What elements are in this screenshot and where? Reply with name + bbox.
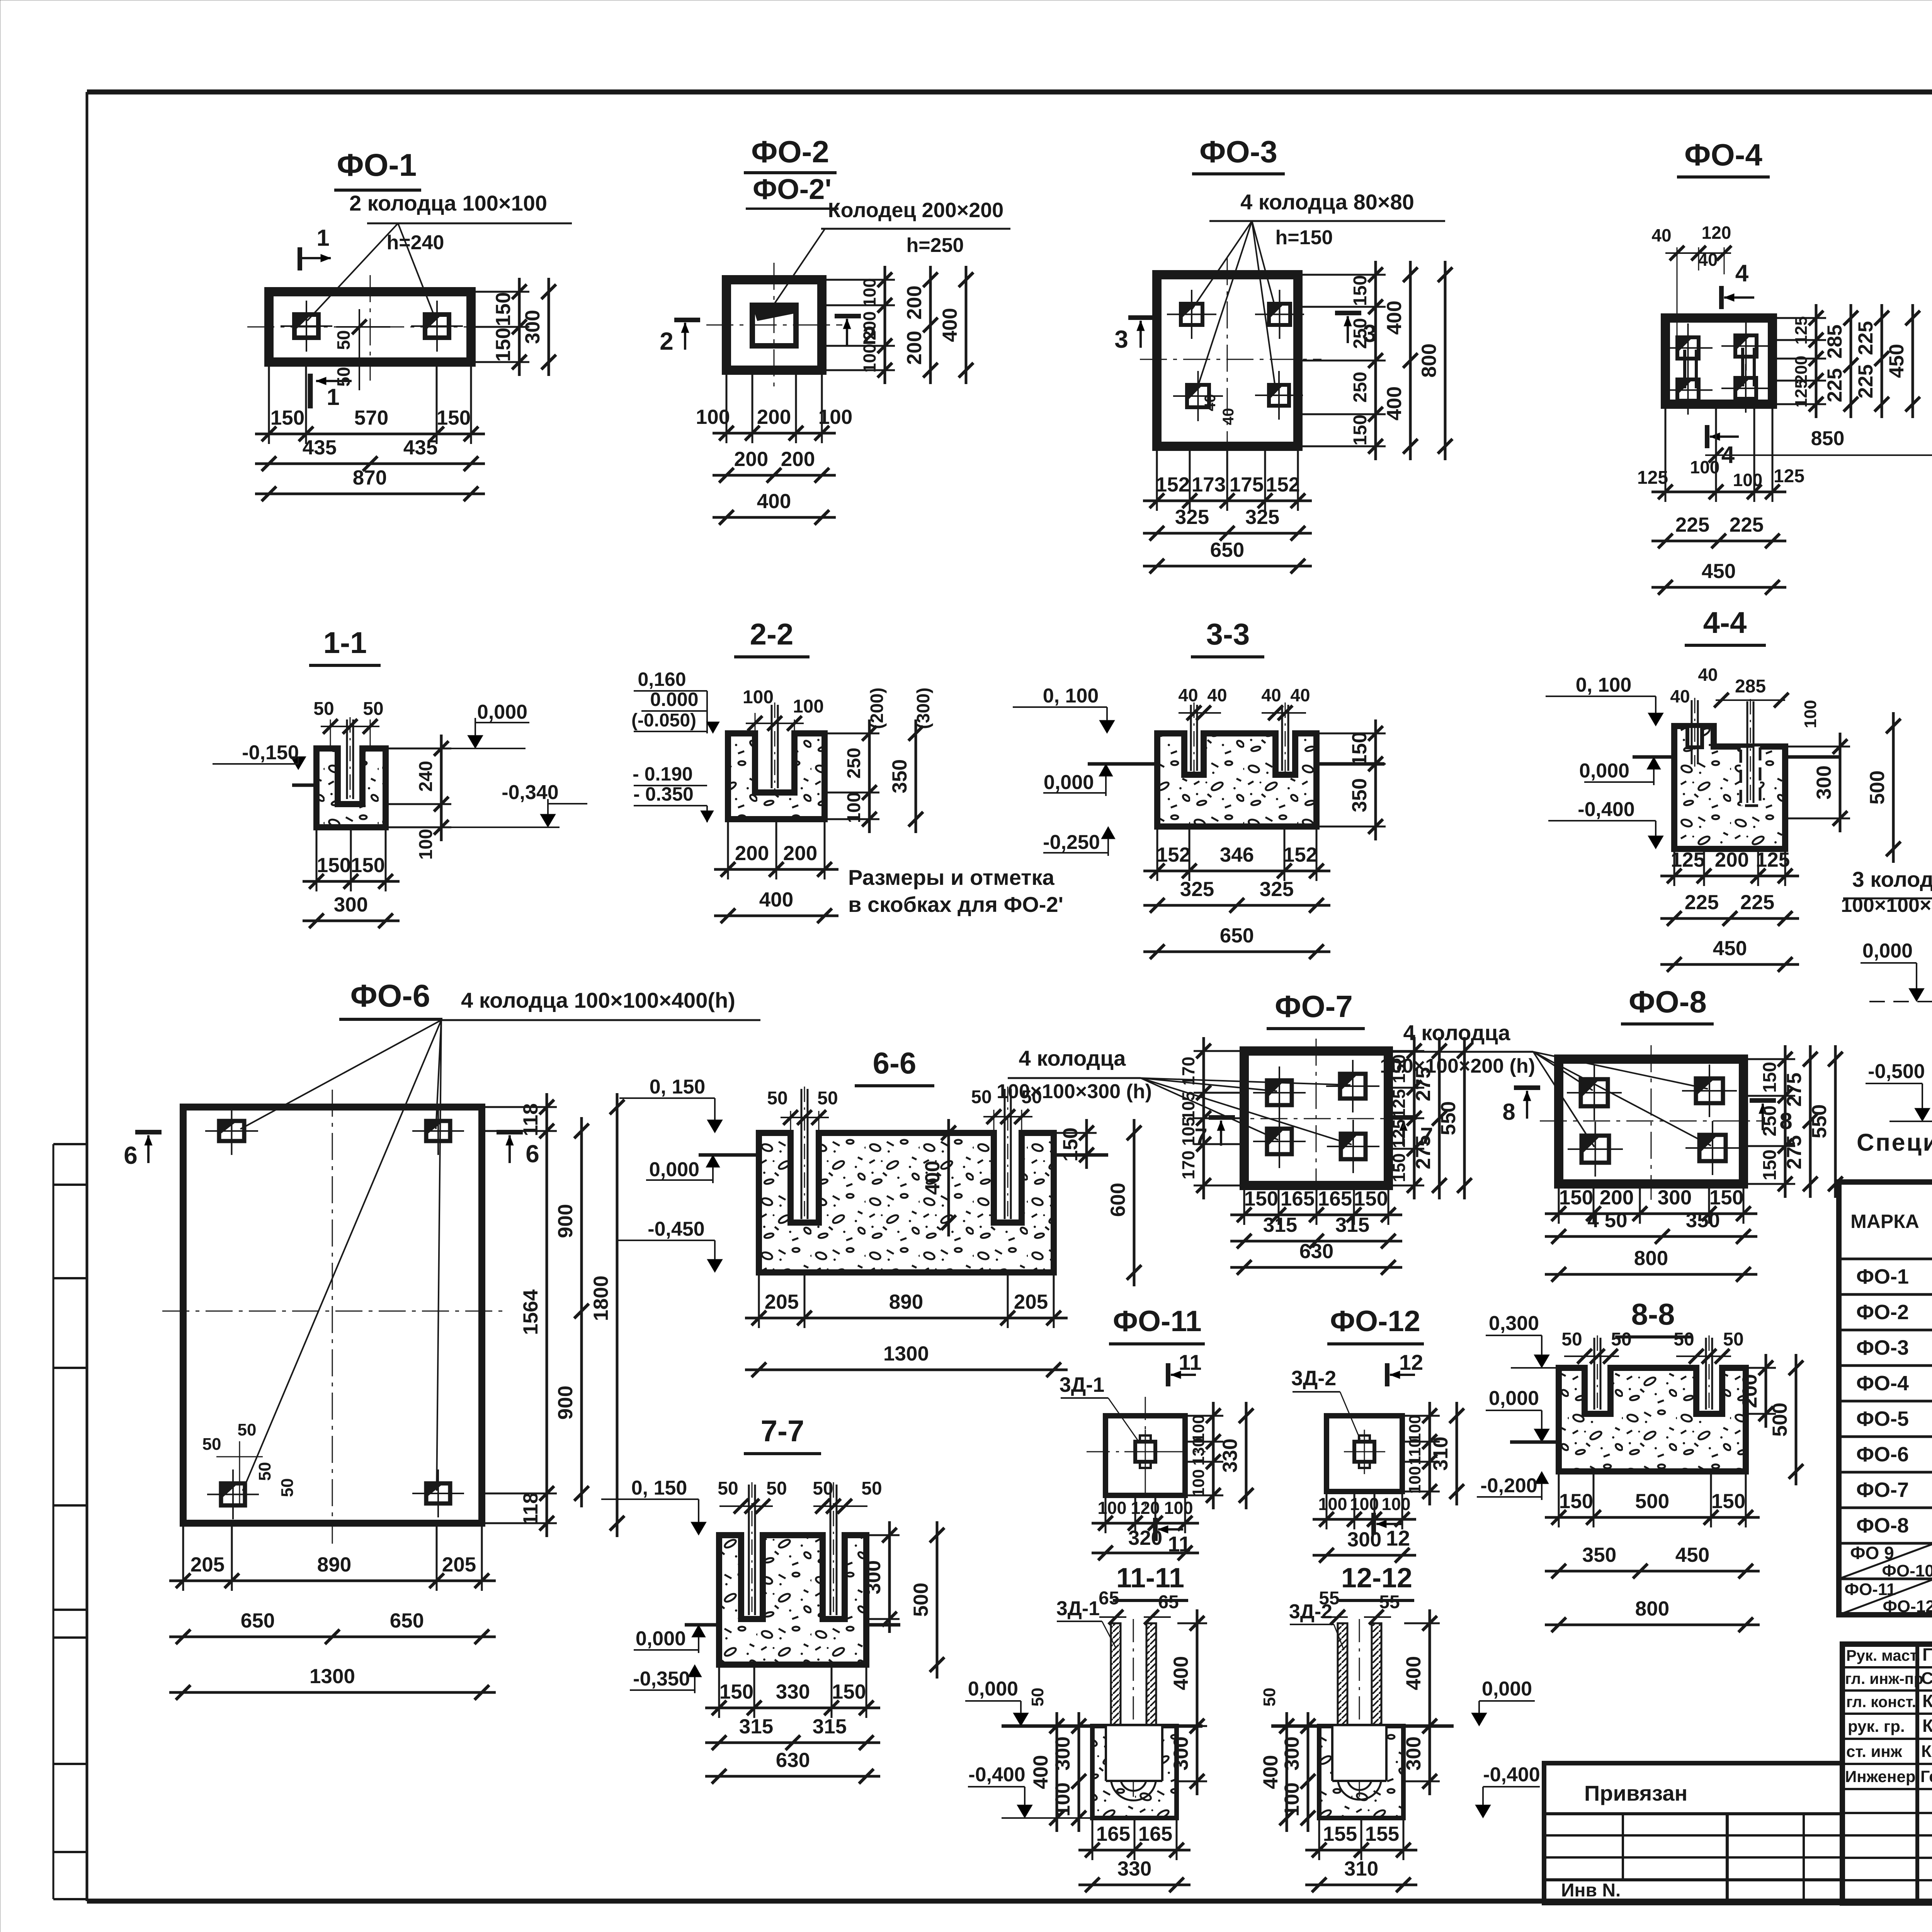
svg-text:175: 175 (1230, 473, 1264, 496)
FO-6 well BL (207, 1469, 259, 1519)
svg-text:6: 6 (526, 1140, 539, 1168)
3-3 dim bottom 325-325 (1143, 904, 1330, 907)
FO-3 callout 4 kolodtsa (1192, 190, 1445, 386)
FO-6 dim right 900-900 (580, 1117, 583, 1507)
svg-text:50: 50 (278, 1478, 297, 1497)
FO-6 dim bottom 1300 (169, 1691, 496, 1694)
svg-text:50: 50 (1611, 1329, 1631, 1350)
6-6 dim right 600 (1133, 1119, 1136, 1286)
svg-text:50: 50 (238, 1420, 257, 1439)
title block outline (1842, 1644, 1932, 1903)
svg-text:1: 1 (327, 384, 339, 410)
svg-text:2-2: 2-2 (750, 617, 794, 651)
6-6 dims 50-50 right (971, 1087, 1042, 1131)
FO-6 small 50 dims (202, 1420, 297, 1507)
4-4 dim bottom 450 (1660, 963, 1799, 966)
FO-2 dim bottom mid (713, 474, 836, 477)
11-11 dim right 400-300 (1170, 1609, 1207, 1795)
FO-7 dim right 275 (1438, 1037, 1441, 1199)
svg-text:12: 12 (1399, 1350, 1423, 1374)
svg-text:h=150: h=150 (1276, 226, 1333, 249)
1-1 level -0.340 right (386, 781, 587, 827)
FO-2 callout kolodets (772, 199, 1010, 307)
FO-2 dim right mid (929, 266, 932, 384)
FO-12 plan outline (1327, 1416, 1402, 1492)
1-1 concrete (316, 748, 386, 827)
7-7 dim right 300 (888, 1521, 891, 1633)
svg-text:400: 400 (1383, 386, 1406, 420)
svg-text:40: 40 (1290, 685, 1310, 705)
svg-text:-0,200: -0,200 (1480, 1475, 1537, 1497)
svg-text:0, 150: 0, 150 (650, 1076, 706, 1098)
svg-text:3Д-1: 3Д-1 (1056, 1597, 1100, 1620)
svg-text:150: 150 (1760, 1062, 1780, 1093)
7-7 dim bottom 150-330-150 (705, 1707, 880, 1709)
3-3 level 0.100 (1013, 685, 1115, 733)
svg-text:225: 225 (1740, 891, 1774, 914)
svg-text:100: 100 (1281, 1782, 1303, 1816)
plan FO-8 title (1621, 985, 1714, 1024)
FO-3 centerlines (1227, 258, 1228, 464)
FO-7 dim right inner (1413, 1037, 1416, 1199)
svg-text:300: 300 (1813, 765, 1835, 799)
svg-text:150: 150 (1711, 1490, 1745, 1513)
FO-4 dim bottom 450 (1651, 586, 1786, 589)
svg-text:40: 40 (1698, 665, 1718, 685)
8-8 dim bottom 800 (1545, 1624, 1760, 1626)
8-8 dim bottom 350-450 (1545, 1570, 1760, 1573)
4-4 small dims (1670, 665, 1820, 728)
6-6 level 0.000 (646, 1155, 720, 1183)
svg-text:400: 400 (1402, 1656, 1425, 1690)
3-3 level -0.250 (1043, 827, 1115, 856)
svg-text:330: 330 (776, 1680, 810, 1703)
2-2 bolt (771, 705, 773, 788)
svg-text:200: 200 (781, 448, 815, 471)
FO-8 dim bottom inner (1545, 1213, 1757, 1215)
frame top border (87, 90, 1932, 95)
svg-text:Рук. маст.: Рук. маст. (1846, 1647, 1920, 1664)
11-11 level 0.000 (965, 1678, 1029, 1726)
FO-1 section mark 1 bottom (310, 374, 352, 410)
svg-text:50: 50 (1673, 1329, 1694, 1350)
svg-text:3 колодца: 3 колодца (1852, 867, 1932, 891)
svg-text:100: 100 (696, 406, 730, 429)
FO-3 small dims 40 (1202, 394, 1237, 425)
svg-text:12-12: 12-12 (1341, 1563, 1412, 1594)
svg-text:400: 400 (939, 308, 961, 342)
12-12 centerline (1359, 1619, 1360, 1801)
svg-text:118: 118 (519, 1492, 542, 1526)
svg-text:173: 173 (1192, 473, 1226, 496)
svg-text:50: 50 (363, 699, 383, 719)
svg-text:ФО-10: ФО-10 (1882, 1561, 1932, 1580)
4-4 ground lines (1633, 755, 1674, 759)
FO-6 well TR (412, 1107, 464, 1155)
svg-text:320: 320 (1128, 1527, 1162, 1549)
svg-text:105: 105 (1179, 1117, 1198, 1146)
FO-11 dim right 330 (1245, 1402, 1248, 1509)
svg-text:400: 400 (757, 490, 791, 513)
plan FO-4 title (1677, 138, 1770, 177)
svg-text:100×100×300 (h): 100×100×300 (h) (1841, 894, 1932, 917)
4-4 dim bottom 225-225 (1660, 917, 1799, 920)
svg-text:800: 800 (1634, 1247, 1668, 1270)
svg-text:200: 200 (1600, 1186, 1634, 1209)
svg-text:450: 450 (1713, 937, 1747, 960)
8-8 level 0.000 (1486, 1387, 1559, 1442)
FO-2 centerlines (706, 325, 842, 326)
7-7 level 0.150 (601, 1477, 706, 1535)
7-7 dim bottom 630 (705, 1775, 880, 1778)
FO-1 well right (411, 301, 463, 352)
svg-text:500: 500 (1635, 1490, 1669, 1513)
FO-3 dim bottom 152-173-175-152 (1143, 500, 1312, 502)
4-4 level 0.000 (1579, 757, 1661, 785)
svg-text:Костромин: Костромин (1921, 1742, 1932, 1761)
svg-text:0,300: 0,300 (1489, 1312, 1539, 1335)
FO-6 dim right 118-1564-118 (546, 1093, 548, 1537)
FO-8 well BL (1568, 1122, 1623, 1177)
section 12-12 title (1339, 1563, 1414, 1600)
svg-text:3Д-1: 3Д-1 (1060, 1373, 1105, 1396)
svg-text:570: 570 (354, 406, 388, 429)
svg-text:275: 275 (1783, 1135, 1806, 1169)
FO-4 top small dims (1651, 223, 1731, 336)
svg-text:200: 200 (1715, 849, 1749, 871)
svg-text:400: 400 (1170, 1656, 1192, 1690)
FO-7 mark 7 right (1390, 1117, 1433, 1149)
svg-text:500: 500 (1769, 1403, 1791, 1437)
FO-3 well TL (1167, 290, 1216, 339)
12-12 dim bottom 155-155 (1305, 1849, 1417, 1852)
section 7-7 title (744, 1414, 821, 1454)
svg-text:870: 870 (353, 466, 387, 489)
svg-text:-0,500: -0,500 (1868, 1060, 1925, 1083)
FO-11 plan outline (1105, 1416, 1185, 1495)
2-2 level stack bottom (633, 763, 714, 822)
svg-text:152: 152 (1283, 844, 1317, 866)
svg-text:50: 50 (255, 1462, 274, 1481)
svg-text:0, 100: 0, 100 (1043, 685, 1099, 707)
FO-7 dim left (1202, 1037, 1205, 1199)
svg-text:гл. инж-пр: гл. инж-пр (1845, 1670, 1923, 1687)
svg-text:4 колодца 80×80: 4 колодца 80×80 (1240, 190, 1414, 214)
svg-text:300: 300 (1281, 1736, 1303, 1770)
8-8 level -0.200 (1477, 1471, 1549, 1500)
svg-text:150: 150 (351, 854, 385, 877)
svg-text:600: 600 (1107, 1183, 1129, 1217)
FO-8 dim right inner (1784, 1045, 1787, 1198)
svg-text:125: 125 (1637, 468, 1668, 488)
svg-text:1: 1 (316, 225, 329, 251)
svg-text:50: 50 (333, 330, 354, 350)
12-12 anchor bars (1338, 1623, 1381, 1800)
svg-text:435: 435 (403, 436, 437, 459)
svg-text:40: 40 (1220, 408, 1237, 425)
svg-text:50: 50 (333, 367, 354, 386)
FO-11 mark 11 bottom (1155, 1518, 1191, 1556)
FO-7 well BL (1253, 1115, 1306, 1168)
FO-7 dim bottom 315 (1230, 1240, 1402, 1243)
title block staff labels (1845, 1647, 1923, 1786)
svg-text:0,000: 0,000 (1482, 1678, 1532, 1700)
svg-text:330: 330 (1117, 1857, 1151, 1880)
FO-6 mark 6 left (124, 1132, 162, 1169)
svg-text:225: 225 (1730, 514, 1764, 536)
svg-text:50: 50 (202, 1435, 221, 1454)
svg-text:ФО-5: ФО-5 (1856, 1407, 1909, 1430)
svg-text:155: 155 (1323, 1823, 1357, 1845)
1-1 dim right 240-100 (440, 735, 443, 841)
svg-text:50: 50 (971, 1087, 992, 1107)
svg-text:ФО-2: ФО-2 (1856, 1301, 1909, 1324)
svg-text:450: 450 (1702, 560, 1736, 583)
FO-7 dim bottom inner (1230, 1214, 1402, 1216)
svg-text:200: 200 (757, 406, 791, 429)
svg-text:1300: 1300 (310, 1665, 355, 1688)
svg-text:50: 50 (861, 1478, 882, 1499)
11-11 ground line (1002, 1725, 1092, 1728)
svg-text:0,000: 0,000 (1862, 940, 1913, 962)
FO-8 well TL (1567, 1065, 1622, 1120)
FO-12 dim bottom 300 (1313, 1554, 1416, 1557)
svg-text:(200): (200) (867, 687, 887, 729)
svg-text:3: 3 (1114, 325, 1128, 353)
svg-text:800: 800 (1418, 344, 1440, 378)
11-11 level -0.400 (968, 1764, 1092, 1818)
12-12 dim bottom 310 (1305, 1884, 1417, 1886)
3-3 ground lines (1088, 762, 1157, 766)
FO-8 dim bottom 450-350 (1545, 1235, 1757, 1238)
svg-text:-0,450: -0,450 (648, 1218, 704, 1240)
svg-text:900: 900 (554, 1386, 577, 1420)
svg-text:900: 900 (554, 1204, 577, 1238)
svg-text:4 колодца 100×100×400(h): 4 колодца 100×100×400(h) (461, 988, 735, 1012)
svg-text:-0,340: -0,340 (502, 781, 558, 804)
svg-text:4 колодца: 4 колодца (1403, 1020, 1511, 1045)
svg-text:200: 200 (735, 842, 769, 865)
svg-text:ФО-1: ФО-1 (337, 148, 417, 183)
svg-text:МАРКА: МАРКА (1850, 1211, 1919, 1232)
svg-text:ФО-6: ФО-6 (1856, 1443, 1909, 1466)
svg-text:325: 325 (1260, 878, 1294, 901)
svg-text:ФО-12: ФО-12 (1883, 1597, 1932, 1616)
plan FO-6 title (339, 978, 442, 1019)
svg-text:0,000: 0,000 (1489, 1387, 1539, 1410)
svg-text:200: 200 (783, 842, 817, 865)
FO-7 mark 7 left (1194, 1117, 1235, 1150)
FO-12 anchor symbol (1344, 1430, 1385, 1474)
3-3 level 0.000 (1043, 764, 1113, 796)
svg-text:225: 225 (1823, 368, 1846, 402)
7-7 dims 50 left (718, 1478, 787, 1514)
note razmery v skobkakh (848, 865, 1063, 917)
FO-1 dim 150-570-150 (255, 433, 485, 435)
svg-text:150: 150 (1244, 1187, 1278, 1210)
svg-text:200: 200 (903, 331, 926, 365)
svg-text:50: 50 (817, 1088, 838, 1109)
svg-text:3Д-2: 3Д-2 (1289, 1600, 1332, 1623)
svg-text:-0,400: -0,400 (968, 1764, 1025, 1786)
svg-text:800: 800 (1635, 1597, 1669, 1620)
7-7 level -0.350 (630, 1665, 702, 1693)
FO-6 dim right 1800 (616, 1093, 619, 1537)
7-7 dim bottom 315-315 (705, 1742, 880, 1744)
11-11 dims 65-65 (1099, 1588, 1179, 1624)
svg-text:100: 100 (1350, 1494, 1379, 1514)
svg-text:125: 125 (1389, 1119, 1409, 1148)
3-3 dim right (1374, 719, 1377, 840)
svg-text:100: 100 (860, 278, 879, 307)
8-8 dims 50 right (1673, 1329, 1743, 1364)
FO-2 mark 2 right (835, 316, 876, 349)
svg-text:250: 250 (844, 748, 864, 779)
svg-text:150: 150 (1350, 275, 1371, 306)
svg-text:4 50: 4 50 (1587, 1209, 1627, 1232)
svg-text:ФО-12: ФО-12 (1330, 1305, 1420, 1338)
svg-text:ФО-7: ФО-7 (1856, 1478, 1909, 1502)
FO-8 plan outline (1559, 1059, 1743, 1184)
6-6 ground lines (699, 1153, 759, 1157)
svg-text:3-3: 3-3 (1206, 617, 1250, 651)
7-7 dim right 500 (936, 1521, 939, 1679)
svg-text:ФО-7: ФО-7 (1275, 989, 1353, 1024)
6-6 dims 50-50 left (767, 1088, 838, 1131)
FO-4 well TL (1663, 323, 1713, 372)
svg-text:8-8: 8-8 (1631, 1297, 1675, 1331)
svg-text:125: 125 (1792, 316, 1811, 344)
svg-text:40: 40 (1207, 685, 1227, 705)
11-11 centerline (1133, 1619, 1134, 1801)
FO-11 label 3D-1 (1060, 1373, 1138, 1440)
frame left border (86, 92, 88, 1901)
privyazan block (1544, 1763, 1842, 1903)
svg-text:100: 100 (1051, 1782, 1074, 1816)
svg-text:435: 435 (303, 436, 337, 459)
FO-12 mark 12 bottom (1374, 1513, 1410, 1550)
spec col marka rows 1-8 (1856, 1265, 1909, 1537)
FO-3 dim right inner (1374, 261, 1377, 460)
FO-7 well TR (1326, 1060, 1379, 1112)
6-6 dim bottom 205-890-205 (745, 1317, 1068, 1320)
svg-text:300: 300 (1658, 1186, 1692, 1209)
svg-text:1564: 1564 (519, 1289, 542, 1335)
svg-text:6: 6 (124, 1141, 138, 1169)
svg-text:100×100×200 (h): 100×100×200 (h) (1380, 1055, 1535, 1077)
svg-text:152: 152 (1266, 473, 1300, 496)
svg-text:ФО 9: ФО 9 (1850, 1543, 1894, 1563)
section 8-8 title (1615, 1297, 1692, 1337)
svg-text:ФО-11: ФО-11 (1113, 1305, 1202, 1338)
4-4 dim right 300 (1839, 733, 1842, 832)
FO-8 mark 8 left (1502, 1088, 1540, 1125)
4-4 dim bottom 125-200-125 (1660, 875, 1799, 878)
plan FO-1 title (334, 148, 421, 190)
svg-text:125: 125 (1774, 466, 1804, 486)
svg-text:275: 275 (1412, 1135, 1435, 1169)
svg-text:200: 200 (1738, 1374, 1761, 1408)
svg-text:0,000: 0,000 (636, 1628, 686, 1650)
section 2-2 title (734, 617, 810, 657)
plan FO-12 title (1327, 1305, 1424, 1344)
1-1 dim bottom 150-150 (303, 880, 400, 883)
svg-text:110: 110 (1406, 1438, 1424, 1465)
svg-text:h=240: h=240 (387, 231, 444, 254)
FO-6 well TL (205, 1107, 258, 1155)
svg-text:50: 50 (766, 1478, 787, 1499)
svg-text:Колодец 200×200: Колодец 200×200 (828, 199, 1004, 222)
FO-12 dim right 310 (1456, 1402, 1458, 1505)
FO-12 mark 12 top (1387, 1350, 1423, 1386)
frame bottom border (87, 1899, 1932, 1904)
FO-6 centerlines (332, 1090, 333, 1544)
svg-text:285: 285 (1823, 325, 1846, 359)
svg-text:11-11: 11-11 (1116, 1563, 1184, 1594)
FO-3 mark 3 left (1114, 318, 1155, 353)
svg-text:450: 450 (1885, 344, 1908, 378)
svg-text:1300: 1300 (883, 1342, 929, 1365)
8-8 level 0.300 (1486, 1312, 1559, 1368)
svg-text:Герасимова: Герасимова (1920, 1767, 1932, 1786)
svg-text:200: 200 (860, 311, 879, 340)
9-9 level -0.500 (1866, 1060, 1932, 1121)
1-1 level 0.000 right (386, 701, 529, 748)
1-1 level -0.150 (213, 742, 306, 770)
9-9 level 0.000 left (1861, 940, 1932, 1002)
svg-text:350: 350 (888, 759, 911, 793)
FO-4 dim bottom 225-225 (1651, 540, 1786, 543)
FO-4 dim 850 with 8 circle (1705, 410, 1932, 601)
svg-text:100: 100 (860, 344, 879, 372)
12-12 level -0.400 right (1475, 1764, 1540, 1818)
FO-7 well BR (1327, 1120, 1379, 1173)
svg-text:0, 150: 0, 150 (631, 1477, 687, 1499)
svg-text:-0,400: -0,400 (1483, 1764, 1540, 1786)
svg-text:240: 240 (416, 761, 436, 792)
svg-text:40: 40 (1261, 685, 1281, 705)
svg-text:ст. инж: ст. инж (1846, 1742, 1903, 1760)
11-11 concrete block (1092, 1726, 1177, 1818)
plan FO-7 title (1267, 989, 1365, 1029)
FO-3 dim bottom 650 (1143, 565, 1312, 568)
svg-text:Стуканова: Стуканова (1921, 1669, 1932, 1688)
svg-text:100: 100 (416, 829, 436, 860)
svg-text:650: 650 (1220, 924, 1254, 947)
7-7 level 0.000 (634, 1625, 706, 1653)
svg-text:150: 150 (1350, 415, 1371, 446)
FO-4 dim right 285 (1850, 304, 1852, 418)
3-3 dim bottom 650 (1143, 951, 1330, 953)
svg-text:450: 450 (1675, 1544, 1709, 1566)
FO-7 plan outline (1244, 1051, 1388, 1185)
svg-text:8: 8 (1502, 1099, 1515, 1125)
svg-text:125: 125 (1671, 849, 1705, 871)
4-4 level -0.400 (1548, 798, 1663, 849)
FO-3 dim right 800 (1444, 261, 1447, 460)
12-12 label 3D-2 (1289, 1600, 1344, 1650)
FO-7 centerlines (1217, 1118, 1412, 1119)
svg-text:100: 100 (793, 696, 824, 717)
FO-1 plan outline (269, 292, 471, 362)
svg-text:300: 300 (1170, 1736, 1192, 1770)
svg-text:50: 50 (1260, 1688, 1279, 1707)
svg-text:205: 205 (765, 1291, 799, 1313)
12-12 ground line (1271, 1725, 1319, 1728)
svg-text:50: 50 (813, 1478, 833, 1499)
svg-text:100: 100 (1097, 1498, 1126, 1518)
svg-text:300: 300 (1347, 1528, 1381, 1551)
